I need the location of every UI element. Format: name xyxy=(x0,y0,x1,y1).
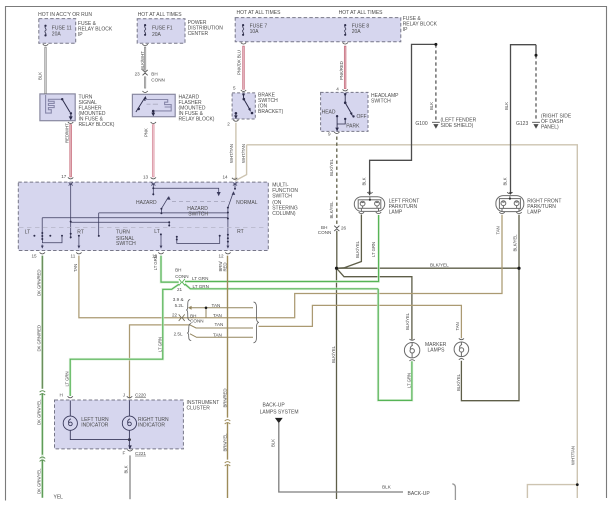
svg-text:4: 4 xyxy=(336,87,339,92)
svg-text:CENTER: CENTER xyxy=(188,31,209,37)
svg-text:BH: BH xyxy=(175,268,181,273)
svg-text:BLK: BLK xyxy=(429,102,434,110)
svg-text:PANEL): PANEL) xyxy=(541,125,559,131)
svg-text:LAMP: LAMP xyxy=(527,209,541,215)
svg-text:BLK: BLK xyxy=(382,484,392,489)
svg-text:HOT IN ACC'Y OR RUN: HOT IN ACC'Y OR RUN xyxy=(38,12,92,18)
svg-text:RELAY BLOCK): RELAY BLOCK) xyxy=(179,117,215,123)
svg-text:PNK/RED: PNK/RED xyxy=(339,61,344,80)
svg-text:22: 22 xyxy=(172,312,178,317)
svg-text:WHT/TAN: WHT/TAN xyxy=(241,144,246,163)
svg-text:SWITCH: SWITCH xyxy=(272,193,292,199)
svg-text:TURN: TURN xyxy=(116,230,130,236)
svg-text:WHT/TAN: WHT/TAN xyxy=(229,144,234,163)
svg-text:INDICATOR: INDICATOR xyxy=(138,422,165,428)
svg-text:RELAY BLOCK: RELAY BLOCK xyxy=(78,26,113,32)
svg-text:NORMAL: NORMAL xyxy=(236,200,258,206)
svg-text:RELAY BLOCK: RELAY BLOCK xyxy=(403,22,438,28)
svg-text:RED/WHT: RED/WHT xyxy=(65,123,70,143)
svg-text:DK GRN/YEL: DK GRN/YEL xyxy=(37,399,42,425)
svg-text:11: 11 xyxy=(71,253,76,258)
svg-text:LT GRN: LT GRN xyxy=(64,372,69,387)
svg-text:BLK/YEL: BLK/YEL xyxy=(405,312,410,330)
svg-text:TAN: TAN xyxy=(215,322,224,327)
svg-text:14: 14 xyxy=(223,175,229,180)
svg-text:BLK/YEL: BLK/YEL xyxy=(430,263,449,268)
svg-text:5: 5 xyxy=(233,86,236,91)
svg-text:BLK: BLK xyxy=(38,72,43,80)
svg-text:BLK/WHT: BLK/WHT xyxy=(140,51,145,70)
svg-text:13: 13 xyxy=(143,175,149,180)
svg-text:RELAY BLOCK): RELAY BLOCK) xyxy=(79,122,115,128)
svg-text:BH: BH xyxy=(151,72,157,77)
svg-text:WHT/TAN: WHT/TAN xyxy=(571,446,576,465)
svg-text:DK GRN/RED: DK GRN/RED xyxy=(37,270,42,296)
svg-text:BLK: BLK xyxy=(362,177,367,185)
svg-text:2.5L: 2.5L xyxy=(174,332,183,337)
svg-text:HOT AT ALL TIMES: HOT AT ALL TIMES xyxy=(138,12,183,18)
svg-text:LT GRN: LT GRN xyxy=(371,242,376,257)
svg-text:TAN: TAN xyxy=(455,322,460,330)
svg-text:5.2L: 5.2L xyxy=(175,303,184,308)
svg-text:IP: IP xyxy=(403,27,408,33)
svg-text:BLK/YEL: BLK/YEL xyxy=(331,345,336,363)
svg-text:BACK-UP: BACK-UP xyxy=(408,491,431,497)
svg-text:LT GRN: LT GRN xyxy=(193,284,209,289)
svg-text:H: H xyxy=(60,392,63,397)
svg-text:HEAD: HEAD xyxy=(322,110,336,116)
svg-text:INDICATOR: INDICATOR xyxy=(81,422,108,428)
svg-text:J: J xyxy=(123,392,125,397)
svg-text:BRACKET): BRACKET) xyxy=(258,109,284,115)
svg-text:20A: 20A xyxy=(152,32,162,38)
svg-text:BLK/YEL: BLK/YEL xyxy=(329,201,334,219)
svg-text:C221: C221 xyxy=(135,451,146,456)
svg-text:YEL: YEL xyxy=(54,495,64,501)
svg-text:BLK/YEL: BLK/YEL xyxy=(355,240,360,258)
svg-text:12: 12 xyxy=(219,253,225,258)
svg-text:21: 21 xyxy=(177,287,183,292)
svg-text:CONN: CONN xyxy=(190,319,204,324)
svg-text:20A: 20A xyxy=(352,29,362,35)
svg-text:PNK/DK BLU: PNK/DK BLU xyxy=(237,50,242,75)
svg-text:2: 2 xyxy=(227,122,230,127)
svg-text:BRN/YEL: BRN/YEL xyxy=(223,433,228,452)
svg-text:23: 23 xyxy=(135,72,141,77)
svg-text:LT GRN: LT GRN xyxy=(157,337,162,352)
svg-text:G123: G123 xyxy=(516,121,528,127)
svg-text:DK GRN/YEL: DK GRN/YEL xyxy=(37,468,42,494)
svg-text:CONN: CONN xyxy=(151,77,165,82)
svg-text:LAMPS: LAMPS xyxy=(428,347,446,353)
svg-text:G100: G100 xyxy=(415,121,427,127)
svg-text:BLK: BLK xyxy=(504,102,509,110)
svg-text:PARK: PARK xyxy=(346,124,360,130)
svg-text:BLK/YEL: BLK/YEL xyxy=(456,373,461,391)
svg-text:SWITCH: SWITCH xyxy=(116,241,136,247)
svg-text:LT GRN: LT GRN xyxy=(153,255,158,270)
svg-text:RT: RT xyxy=(77,229,84,235)
svg-text:LAMP: LAMP xyxy=(389,209,403,215)
svg-text:LT GRN: LT GRN xyxy=(406,373,411,388)
svg-text:CLUSTER: CLUSTER xyxy=(187,405,211,411)
svg-text:TAN: TAN xyxy=(73,264,78,272)
svg-text:CONN: CONN xyxy=(318,230,332,235)
svg-text:PNK: PNK xyxy=(144,128,149,137)
svg-text:LT GRN: LT GRN xyxy=(192,276,208,281)
svg-text:RT: RT xyxy=(237,229,244,235)
svg-text:TAN: TAN xyxy=(213,313,222,318)
svg-text:CONN: CONN xyxy=(175,274,189,279)
svg-text:17: 17 xyxy=(61,174,67,179)
svg-text:SWITCH: SWITCH xyxy=(371,99,391,105)
svg-text:BLK: BLK xyxy=(502,177,507,185)
svg-text:20A: 20A xyxy=(52,32,62,38)
svg-text:DK GRN/RED: DK GRN/RED xyxy=(37,325,42,351)
svg-text:HOT AT ALL TIMES: HOT AT ALL TIMES xyxy=(237,10,282,16)
svg-text:BLK/YEL: BLK/YEL xyxy=(513,234,518,252)
svg-text:BLK: BLK xyxy=(124,465,129,473)
svg-text:9: 9 xyxy=(328,132,331,137)
svg-text:C220: C220 xyxy=(135,392,146,397)
svg-text:BRN/RED: BRN/RED xyxy=(223,389,228,408)
svg-text:FUSE F1: FUSE F1 xyxy=(152,26,173,32)
svg-text:TAN: TAN xyxy=(496,226,501,234)
svg-text:TAN: TAN xyxy=(213,333,222,338)
svg-text:OFF: OFF xyxy=(357,114,367,120)
svg-text:IP: IP xyxy=(78,32,83,38)
svg-text:SIDE SHIELD): SIDE SHIELD) xyxy=(441,123,474,129)
svg-text:TAN: TAN xyxy=(212,303,221,308)
svg-text:SWITCH: SWITCH xyxy=(188,211,208,217)
svg-text:COLUMN): COLUMN) xyxy=(272,211,296,217)
svg-text:15: 15 xyxy=(32,253,38,258)
svg-text:HAZARD: HAZARD xyxy=(136,200,157,206)
svg-text:HOT AT ALL TIMES: HOT AT ALL TIMES xyxy=(339,10,384,16)
svg-text:LAMPS SYSTEM: LAMPS SYSTEM xyxy=(260,410,299,416)
svg-text:BACK-UP: BACK-UP xyxy=(263,402,286,408)
svg-text:LT: LT xyxy=(154,229,159,235)
svg-text:10A: 10A xyxy=(250,29,260,35)
svg-text:26: 26 xyxy=(341,226,347,231)
svg-text:RED: RED xyxy=(223,263,228,272)
svg-text:BLK: BLK xyxy=(271,439,276,447)
svg-text:BLK/YEL: BLK/YEL xyxy=(329,158,334,176)
svg-text:LT: LT xyxy=(25,229,30,235)
svg-text:F: F xyxy=(123,450,126,455)
svg-text:3.9 &: 3.9 & xyxy=(173,297,184,302)
